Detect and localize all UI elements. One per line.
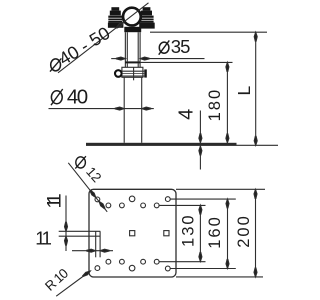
dim 11 horizontal arrow right	[87, 249, 96, 252]
svg-text:40 - 50: 40 - 50	[55, 23, 113, 69]
hole row B top	[106, 203, 111, 208]
dim 4 line lower	[199, 146, 201, 169]
dim 130 arrow bottom	[199, 252, 202, 261]
label dia 40	[51, 85, 88, 108]
extension line at plate bottom for dim L	[237, 144, 279, 146]
dia 40 arrow right	[142, 107, 151, 110]
dim 180 line	[226, 62, 228, 142]
collar dark band	[125, 61, 140, 63]
svg-text:200: 200	[235, 214, 253, 248]
dia 35 arrow right	[140, 57, 149, 60]
bolt left of clamp	[108, 7, 124, 28]
collar bolt shaft	[122, 70, 144, 72]
leader from bottom hole row B for dim 130	[159, 261, 205, 263]
dia 12 leader line	[68, 163, 107, 212]
svg-text:R 10: R 10	[42, 266, 71, 294]
dim 130 arrow top	[199, 205, 202, 214]
base plate outline	[89, 189, 176, 277]
dia 35 dimension line left part	[111, 58, 125, 60]
hole row A top	[95, 197, 100, 202]
square cutout center	[130, 231, 135, 236]
slot right vertical line	[99, 231, 101, 257]
dia 12 arrow upper	[89, 190, 97, 199]
dim L arrow bottom	[254, 136, 257, 145]
dim 11 vertical arrow down	[65, 222, 68, 231]
leader from top right hole row A for dim 160	[170, 198, 236, 200]
dia 40 dimension line	[49, 108, 154, 110]
label dia 35	[159, 36, 190, 57]
dia 12 arrow lower	[98, 200, 106, 209]
hole row B bottom	[106, 259, 111, 264]
slot left vertical line	[95, 231, 97, 257]
svg-text:40: 40	[67, 85, 88, 108]
extension line at collar for dim 180	[140, 61, 232, 63]
upper tube inner walls	[126, 32, 128, 61]
dim 4 line upper	[199, 111, 201, 143]
dim L arrow top	[254, 32, 257, 41]
plate bottom edge extension for dim 200	[176, 276, 263, 278]
dim 11 horizontal arrow left	[100, 249, 109, 252]
label dia 12	[75, 156, 104, 185]
dia 40 arrow left	[115, 107, 124, 110]
dim 200 arrow top	[254, 189, 257, 198]
dim 180 arrow bottom	[226, 134, 229, 143]
dim 11 vertical arrow up	[65, 236, 68, 245]
dia 35 dimension line right part	[140, 58, 204, 60]
dia 35 arrow left	[116, 57, 125, 60]
collar box	[122, 67, 143, 77]
dim 200 line	[255, 189, 257, 277]
dim 130 line	[199, 205, 201, 261]
pipe clamp ring	[123, 8, 141, 26]
dim 4 arrow down	[199, 134, 202, 143]
extension line at clamp seat for dim L	[150, 31, 267, 33]
arrowhead of dia 40-50 leader	[116, 21, 125, 29]
clamp seat bar	[124, 27, 141, 32]
hole row A bottom	[95, 266, 100, 271]
dim 180 arrow top	[226, 62, 229, 71]
svg-text:12: 12	[83, 164, 104, 185]
R10 arrowhead	[82, 270, 91, 278]
svg-text:11: 11	[35, 228, 51, 249]
slot upper edge / extension line for vertical 11 dim	[59, 230, 101, 232]
base plate side view	[86, 143, 237, 146]
collar bolt head	[115, 70, 122, 77]
label dia 40-50	[50, 23, 113, 72]
collar bolt end cap	[144, 69, 147, 77]
upper tube outer walls	[124, 32, 126, 67]
svg-text:L: L	[234, 86, 254, 96]
dim 160 line	[227, 199, 229, 268]
svg-text:11: 11	[45, 194, 66, 209]
svg-text:35: 35	[171, 36, 190, 57]
collar screw centre line	[133, 67, 135, 80]
lower pipe walls	[123, 77, 125, 143]
R10 leader line	[56, 271, 90, 296]
svg-text:160: 160	[206, 215, 224, 249]
svg-text:130: 130	[179, 213, 197, 247]
dim 11 horizontal line	[72, 250, 113, 252]
slot lower edge / extension line for vertical 11 dim	[59, 235, 101, 237]
bolt right of clamp	[139, 7, 155, 28]
leader from top hole row B for dim 130	[159, 204, 205, 206]
dim L line	[255, 32, 257, 145]
leader line dia 40-50	[58, 3, 149, 73]
dim 11 vertical line	[65, 196, 67, 252]
dim 160 arrow top	[226, 199, 229, 208]
plate top edge extension for dim 200	[176, 188, 265, 190]
leader from bottom right hole row A for dim 160	[170, 268, 236, 270]
square cutout right	[164, 231, 169, 236]
svg-text:4: 4	[175, 109, 197, 120]
svg-text:180: 180	[206, 88, 224, 122]
dim 4 arrow up	[199, 146, 202, 155]
dim 200 arrow bottom	[254, 268, 257, 277]
dim 160 arrow bottom	[226, 259, 229, 268]
